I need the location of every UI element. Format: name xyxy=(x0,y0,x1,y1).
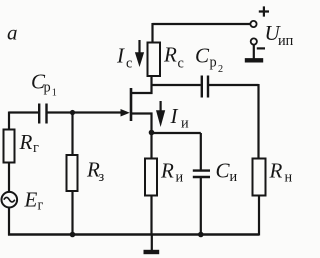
terminal - circle xyxy=(251,38,257,44)
wire node to Cи xyxy=(152,132,201,134)
resistor Rc xyxy=(148,43,161,77)
label Cp1 xyxy=(31,70,57,99)
svg-text:н: н xyxy=(285,170,293,186)
resistor Rг xyxy=(4,130,15,163)
wire Rз bottom stub xyxy=(71,191,73,235)
wire Rи top stub xyxy=(150,133,152,160)
wire stub Rг to Eг xyxy=(8,163,10,193)
wire drain lead xyxy=(130,92,152,94)
capacitor Cp2 xyxy=(202,76,208,98)
wire Rз top stub xyxy=(71,113,73,156)
label Rз xyxy=(86,158,105,186)
wire gate net from Cp1 to transistor xyxy=(48,111,122,113)
svg-text:E: E xyxy=(24,188,38,212)
label Rг xyxy=(19,130,40,156)
wire top supply rail xyxy=(153,23,251,25)
current arrow Iи xyxy=(156,101,165,127)
wire Cp2 coupling from drain node xyxy=(152,84,201,86)
ground bar bottom xyxy=(144,250,160,254)
node dot source xyxy=(149,130,155,136)
ground stub below minus terminal xyxy=(253,45,255,59)
current arrow Ic xyxy=(135,40,144,67)
terminal + circle xyxy=(250,21,256,27)
wire bottom rail xyxy=(8,233,259,236)
wire source vertical to node xyxy=(150,113,152,134)
label Ic xyxy=(116,44,132,72)
svg-text:I: I xyxy=(170,104,179,128)
label Iи xyxy=(170,104,190,132)
svg-text:R: R xyxy=(160,159,174,183)
svg-text:R: R xyxy=(269,159,283,183)
wire Cи bottom stub xyxy=(200,178,202,235)
svg-text:р: р xyxy=(44,79,51,95)
junction dot Cи bottom xyxy=(198,232,204,238)
resistor Rн xyxy=(253,159,266,196)
wire stub Eг to bottom rail xyxy=(8,208,10,236)
transistor gate arrowhead xyxy=(121,109,130,117)
svg-text:R: R xyxy=(19,130,33,154)
label Uип xyxy=(265,21,294,49)
wire Rи bottom stub xyxy=(150,196,152,236)
svg-text:R: R xyxy=(163,43,177,67)
svg-text:и: и xyxy=(181,116,189,132)
svg-text:C: C xyxy=(216,159,231,183)
label Rc xyxy=(163,43,184,72)
capacitor Cp1 xyxy=(39,104,46,124)
svg-text:и: и xyxy=(176,170,184,186)
wire drain stub below Rc xyxy=(150,76,152,94)
svg-text:г: г xyxy=(38,198,44,214)
svg-text:ип: ип xyxy=(278,33,294,49)
svg-text:I: I xyxy=(116,44,125,68)
wire from Cp2 to output xyxy=(209,84,259,86)
minus sign xyxy=(257,47,265,49)
svg-text:г: г xyxy=(33,140,39,156)
wire input line from generator to Cp1 xyxy=(9,111,38,113)
transistor VT channel bar xyxy=(130,88,133,121)
plus sign xyxy=(259,6,269,16)
svg-text:з: з xyxy=(99,169,105,185)
label Rн xyxy=(269,159,293,186)
svg-text:с: с xyxy=(178,56,184,72)
resistor Rз xyxy=(67,155,78,191)
svg-text:1: 1 xyxy=(52,88,57,99)
resistor Rи xyxy=(145,159,157,196)
label Rи xyxy=(160,159,184,186)
wire stub from rail to Rc top xyxy=(151,23,153,43)
label Eг xyxy=(24,188,44,214)
generator Eг circle xyxy=(2,192,18,208)
wire source lead xyxy=(132,112,153,114)
wire Rн bottom stub xyxy=(258,196,260,236)
svg-text:2: 2 xyxy=(218,64,223,75)
wire left vertical to Rг xyxy=(8,112,10,131)
junction dot gate node xyxy=(70,110,75,115)
svg-text:р: р xyxy=(210,55,217,71)
svg-text:с: с xyxy=(126,56,132,72)
label Cp2 xyxy=(195,44,223,76)
svg-text:a: a xyxy=(7,21,18,45)
wire Cи top stub xyxy=(200,133,202,170)
svg-text:C: C xyxy=(195,44,210,68)
svg-text:и: и xyxy=(230,169,238,185)
generator sine symbol xyxy=(4,197,15,202)
wire right vertical to Rн xyxy=(257,84,259,159)
ground bar top right xyxy=(245,58,263,62)
label Cи xyxy=(216,159,238,186)
wire ground stub bottom xyxy=(151,235,153,251)
junction dot Rз bottom xyxy=(70,232,76,238)
capacitor Cи xyxy=(193,171,210,177)
